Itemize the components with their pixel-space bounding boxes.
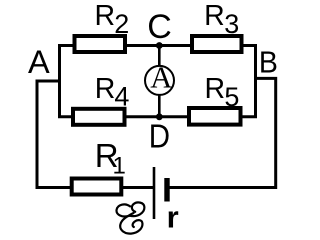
- svg-text:R: R: [204, 0, 225, 32]
- label R1: [95, 137, 126, 180]
- svg-text:C: C: [147, 8, 172, 46]
- EMF script-E label: [117, 202, 145, 233]
- svg-text:A: A: [150, 60, 172, 94]
- resistor R5: [189, 108, 241, 125]
- label R4: [95, 73, 130, 112]
- node D junction dot: [156, 113, 163, 120]
- wire: B stub, right outer vertical, bottom right to battery: [169, 78, 276, 187]
- svg-text:R: R: [95, 0, 116, 32]
- wire: A stub, left outer vertical, bottom left wire to R1: [37, 81, 72, 188]
- label R2: [95, 0, 130, 39]
- wire: middle segment R4 to R5 through node D: [125, 115, 190, 118]
- svg-text:r: r: [167, 199, 179, 234]
- svg-text:R: R: [95, 73, 116, 105]
- wire: R1 right to battery long plate: [122, 186, 155, 189]
- wire: ammeter top connector from node C: [158, 46, 161, 67]
- battery short thick plate (negative terminal), internal resistance r: [164, 178, 169, 202]
- wire: ammeter bottom connector to node D: [158, 95, 161, 117]
- resistor R4: [73, 109, 125, 125]
- battery long plate (positive terminal of EMF source): [153, 167, 156, 219]
- node C junction dot: [156, 42, 163, 49]
- resistor R1: [72, 179, 122, 195]
- svg-text:3: 3: [224, 9, 239, 39]
- svg-text:5: 5: [224, 82, 239, 112]
- svg-text:B: B: [259, 45, 278, 79]
- wire: R3 right, inner right vertical down to R5 wire: [241, 46, 256, 117]
- wire: top middle segment R2 to R3 through node C: [125, 44, 192, 47]
- wire: A-branch left inner vertical with top/bottom stubs to R2 and R4: [60, 46, 75, 117]
- label R3: [204, 0, 239, 39]
- resistor R2: [75, 36, 126, 52]
- svg-text:4: 4: [114, 82, 129, 112]
- label R5: [205, 73, 240, 112]
- svg-text:R: R: [205, 73, 226, 105]
- svg-text:2: 2: [114, 9, 129, 39]
- svg-text:1: 1: [113, 153, 126, 180]
- svg-text:D: D: [149, 117, 170, 155]
- ammeter A (meter circle): [145, 66, 174, 95]
- svg-text:A: A: [28, 44, 50, 80]
- resistor R3: [192, 36, 242, 52]
